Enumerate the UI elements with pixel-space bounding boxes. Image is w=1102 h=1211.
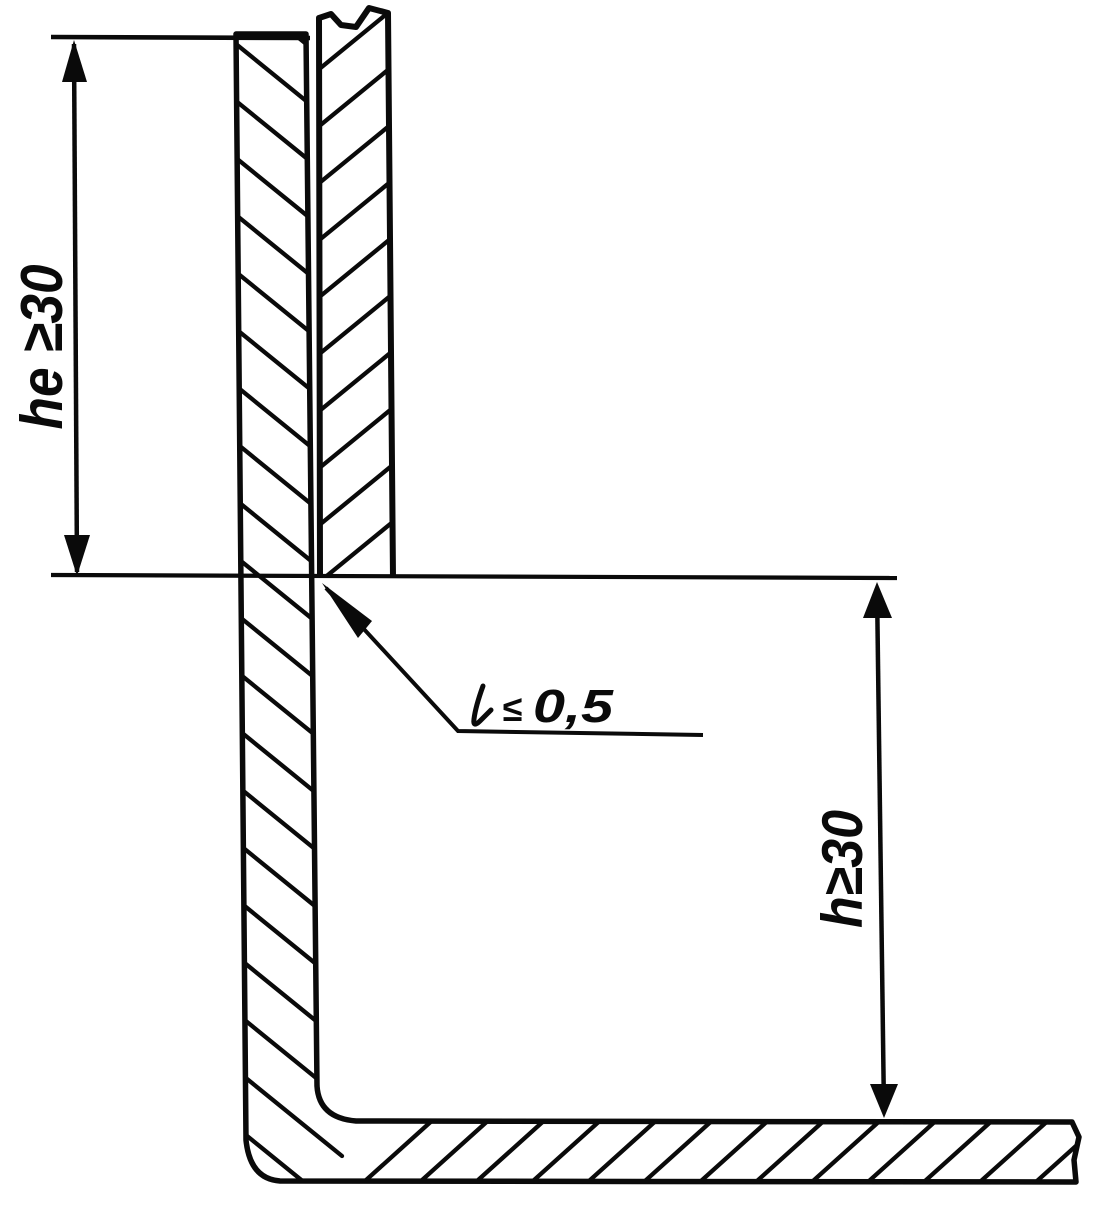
svg-text:h≥30: h≥30 [811, 810, 875, 928]
svg-text:0,5: 0,5 [533, 680, 615, 732]
left dimension bottom arrowhead [64, 535, 90, 576]
svg-text:he ≥30: he ≥30 [8, 265, 75, 430]
wall hatch lines (\ direction) [220, 0, 342, 73]
middle reference line (floor level upper) [51, 575, 897, 578]
label l <= 0,5 : script ell [474, 686, 491, 724]
right strip hatching (/ direction) [312, 3, 400, 645]
wall + floor outline [236, 34, 1079, 1182]
left dimension line he [74, 44, 77, 572]
left dimension top arrowhead [62, 40, 87, 82]
right dimension top arrowhead [863, 582, 892, 618]
leader line for joint gap [326, 588, 703, 735]
right dimension line h [877, 588, 884, 1112]
right strip outline (interior membrane) [319, 8, 393, 578]
svg-text:≤: ≤ [502, 688, 522, 729]
top reference line [51, 37, 310, 38]
leader arrowhead [322, 583, 372, 638]
floor hatch lines (/ direction) [355, 1118, 435, 1190]
right dimension bottom arrowhead [870, 1084, 898, 1118]
